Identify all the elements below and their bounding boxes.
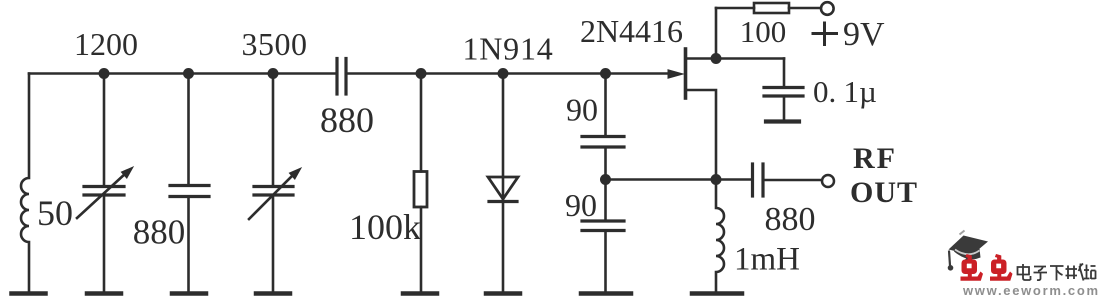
- svg-text:880: 880: [320, 100, 374, 140]
- wire source lead: [686, 90, 716, 180]
- inductor L1 50: [21, 74, 29, 292]
- ground (C6): [766, 119, 799, 123]
- terminal RF OUT: [822, 175, 834, 187]
- variable capacitor VC1 1200: [77, 74, 133, 292]
- svg-text:1mH: 1mH: [734, 242, 800, 278]
- svg-text:9V: 9V: [843, 16, 885, 53]
- node VC2 top: [268, 68, 279, 79]
- ground (D1): [486, 291, 520, 296]
- watermark chinese char chong 1: [961, 254, 984, 281]
- inductor L2 1mH: [716, 180, 724, 292]
- svg-text:OUT: OUT: [850, 176, 918, 209]
- node drain junction: [711, 53, 722, 64]
- svg-text:2N4416: 2N4416: [580, 13, 683, 49]
- svg-text:3500: 3500: [242, 26, 308, 62]
- node source junction: [711, 174, 722, 185]
- capacitor C5 90 (lower): [582, 221, 624, 291]
- svg-text:100k: 100k: [349, 207, 421, 247]
- wire feedback node to source/output: [606, 178, 752, 181]
- svg-text:1µ: 1µ: [844, 74, 877, 109]
- transistor Q1 2N4416 gate arrow: [668, 70, 683, 78]
- wire top rail left segment: [29, 72, 336, 75]
- ground (C1): [172, 291, 206, 296]
- svg-text:RF: RF: [853, 142, 897, 175]
- node R1 top: [416, 68, 427, 79]
- ground (L1): [12, 291, 46, 296]
- watermark mortarboard icon: [948, 231, 988, 271]
- watermark text dianzi xiazaizhan: [1018, 264, 1096, 281]
- node C1 top: [183, 68, 194, 79]
- capacitor C2 880 (series coupling): [337, 59, 346, 95]
- watermark: [948, 231, 1098, 297]
- transistor Q1 2N4416 channel: [684, 49, 688, 98]
- ground (VC1): [87, 291, 121, 296]
- svg-text:90: 90: [566, 92, 598, 128]
- node D1 top: [498, 68, 509, 79]
- wire drain to top: [715, 8, 718, 59]
- svg-text:1N914: 1N914: [462, 31, 553, 67]
- resistor R2 100: [754, 3, 789, 13]
- svg-text:www.eeworm.com: www.eeworm.com: [962, 283, 1098, 297]
- label +9V plus sign: [812, 22, 839, 47]
- diode D1 1N914: [488, 74, 518, 292]
- wire top rail right segment (to gate): [348, 72, 669, 75]
- capacitor C4 90 (upper): [582, 74, 624, 220]
- svg-text:880: 880: [765, 201, 816, 238]
- node feedback junction: [600, 174, 611, 185]
- ground (R1): [403, 291, 437, 296]
- node C4 top: [600, 68, 611, 79]
- capacitor C1 880: [170, 74, 209, 292]
- svg-text:1200: 1200: [74, 26, 138, 62]
- resistor R1 100k: [414, 74, 427, 292]
- wire top supply: [716, 7, 754, 10]
- wire drain to bypass cap: [716, 57, 784, 60]
- terminal +9V: [821, 2, 834, 15]
- wire drain lead: [686, 57, 716, 60]
- ground (C5): [581, 291, 631, 296]
- variable capacitor VC2 3500: [249, 74, 301, 292]
- watermark chinese char chong 2: [990, 254, 1013, 281]
- capacitor C6 0.1u: [764, 59, 803, 120]
- ground (VC2): [256, 291, 290, 296]
- svg-text:0.: 0.: [813, 74, 836, 109]
- node dots: [99, 53, 722, 185]
- svg-text:100: 100: [740, 14, 787, 49]
- node VC1 top: [99, 68, 110, 79]
- svg-text:90: 90: [565, 187, 597, 223]
- svg-text:50: 50: [37, 193, 73, 233]
- capacitor C7 880 (output coupling): [753, 164, 822, 196]
- wire resistor to terminal: [789, 7, 821, 10]
- ground (L2): [692, 291, 742, 296]
- svg-text:880: 880: [133, 213, 186, 252]
